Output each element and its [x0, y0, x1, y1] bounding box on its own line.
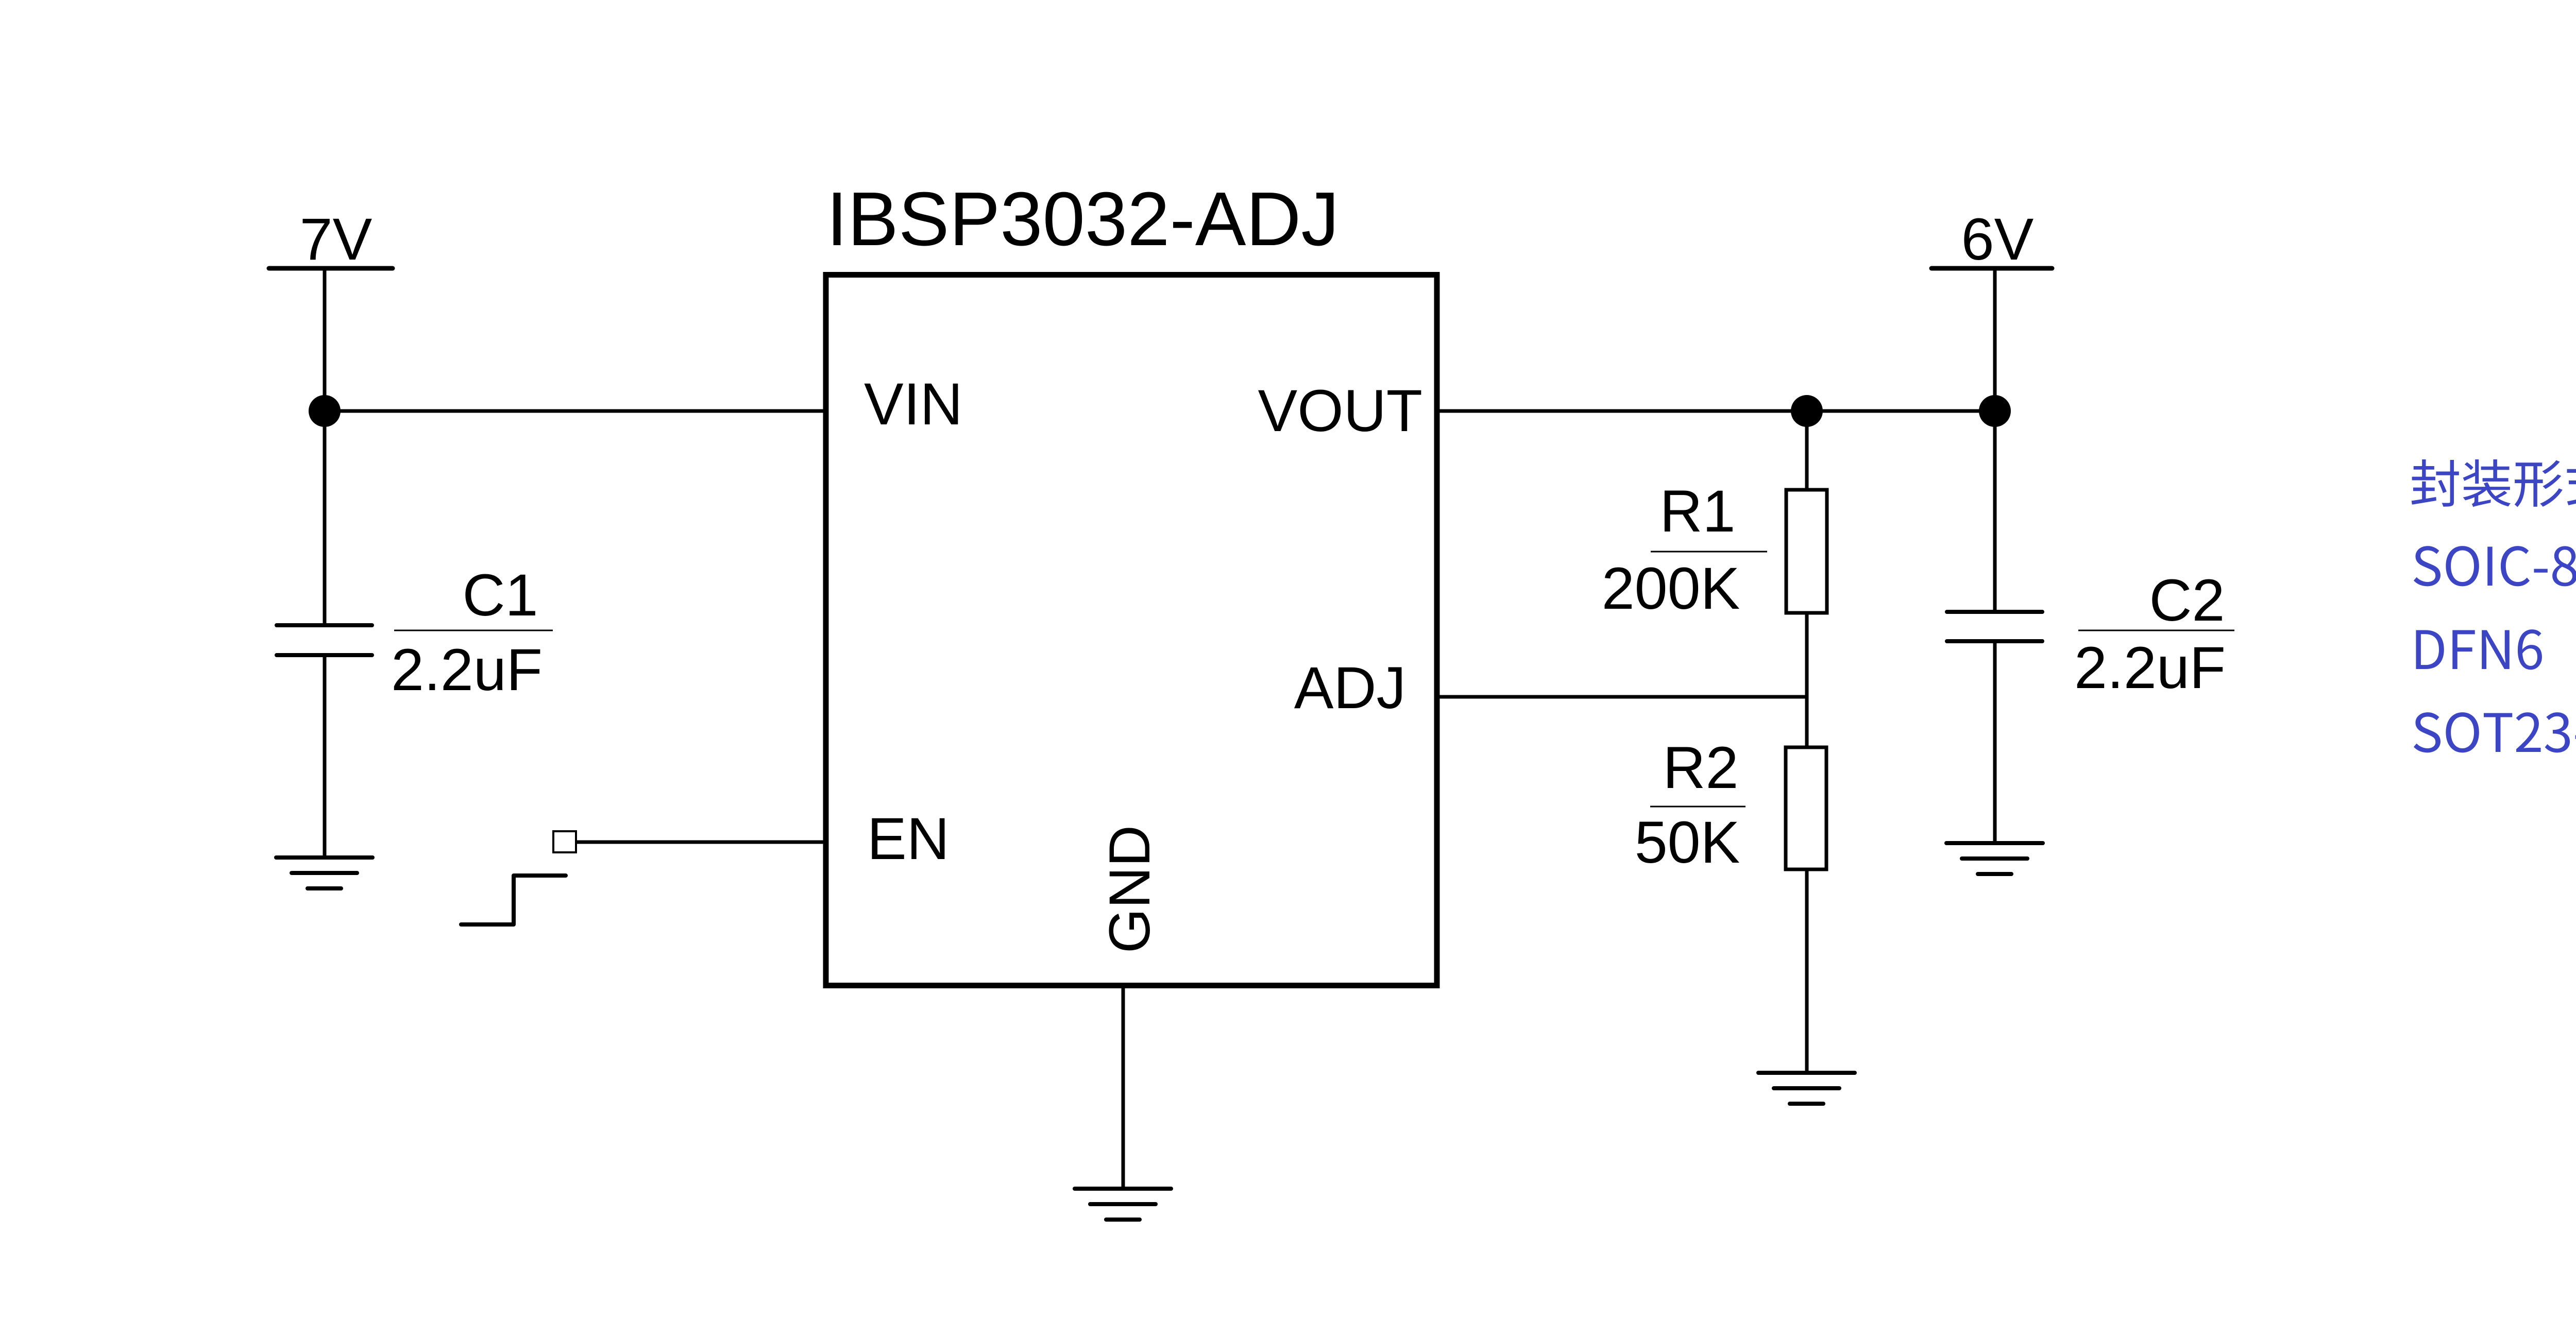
wire IC VOUT pin to node A: [1437, 409, 1807, 413]
resistor R1 body: [1786, 490, 1827, 613]
ground symbol under IC GND pin: [1075, 1189, 1171, 1220]
label separator line R2: [1650, 806, 1745, 808]
ground symbol under C1: [276, 858, 372, 888]
capacitor C1 bottom plate: [277, 653, 372, 657]
rising-edge signal symbol at EN: [461, 876, 566, 924]
wire VIN node to IC VIN pin: [325, 409, 825, 413]
wire node A to node B: [1807, 409, 1995, 413]
svg-text:2.2uF: 2.2uF: [391, 637, 543, 703]
capacitor C1 top plate: [277, 623, 372, 627]
wire R2 bottom to ground: [1805, 869, 1809, 1071]
ground symbol under R2: [1758, 1073, 1855, 1104]
input pin square on EN net: [553, 831, 576, 852]
package note title 封装形式：: [2412, 459, 2576, 507]
label separator line C2: [2078, 630, 2234, 631]
wire IC GND pin to ground: [1122, 985, 1125, 1187]
svg-text:R2: R2: [1663, 735, 1738, 801]
svg-text:VOUT: VOUT: [1258, 378, 1422, 444]
svg-text:50K: 50K: [1635, 810, 1740, 876]
label separator line R1: [1651, 551, 1767, 553]
svg-text:VIN: VIN: [864, 371, 963, 437]
svg-text:GND: GND: [1097, 825, 1162, 953]
wire C2 to ground: [1993, 643, 1997, 842]
svg-text:R1: R1: [1659, 478, 1735, 544]
wire IC ADJ pin to divider node: [1437, 695, 1807, 699]
svg-text:200K: 200K: [1602, 556, 1740, 622]
junction dot at node B (6V / C2): [1979, 395, 2011, 427]
package option SOIC-8: [2414, 546, 2576, 586]
svg-text:C2: C2: [2149, 568, 2225, 633]
wire VIN node down to C1: [323, 411, 327, 624]
ground symbol under C2: [1946, 843, 2043, 874]
svg-text:6V: 6V: [1961, 207, 2034, 272]
svg-text:C1: C1: [462, 562, 538, 628]
wire node A down to R1: [1805, 411, 1809, 490]
junction dot at VIN node: [309, 395, 341, 427]
wire R1 bottom to R2 top (ADJ node): [1805, 613, 1809, 747]
capacitor C2 bottom plate: [1947, 639, 2042, 643]
wire C1 to ground: [323, 657, 327, 856]
capacitor C2 top plate: [1947, 610, 2042, 614]
svg-text:2.2uF: 2.2uF: [2074, 635, 2226, 701]
wire node B up to 6V flag: [1993, 268, 1997, 411]
junction dot at node A (R1 top): [1791, 395, 1823, 427]
svg-text:EN: EN: [867, 806, 950, 872]
power flag 6V bar: [1931, 266, 2052, 271]
IC U1 body IBSP3032-ADJ: [826, 275, 1437, 986]
package option SOT23-5: [2414, 712, 2576, 752]
svg-text:7V: 7V: [300, 207, 372, 272]
package option DFN6: [2416, 629, 2542, 670]
wire 7V flag to VIN node: [323, 268, 327, 411]
label separator line C1: [394, 630, 553, 631]
svg-text:IBSP3032-ADJ: IBSP3032-ADJ: [826, 177, 1339, 262]
resistor R2 body: [1786, 747, 1826, 869]
power flag 7V bar: [269, 266, 393, 271]
wire EN square to IC EN pin: [577, 841, 825, 844]
svg-text:ADJ: ADJ: [1294, 655, 1406, 721]
wire node B down to C2: [1993, 411, 1997, 610]
